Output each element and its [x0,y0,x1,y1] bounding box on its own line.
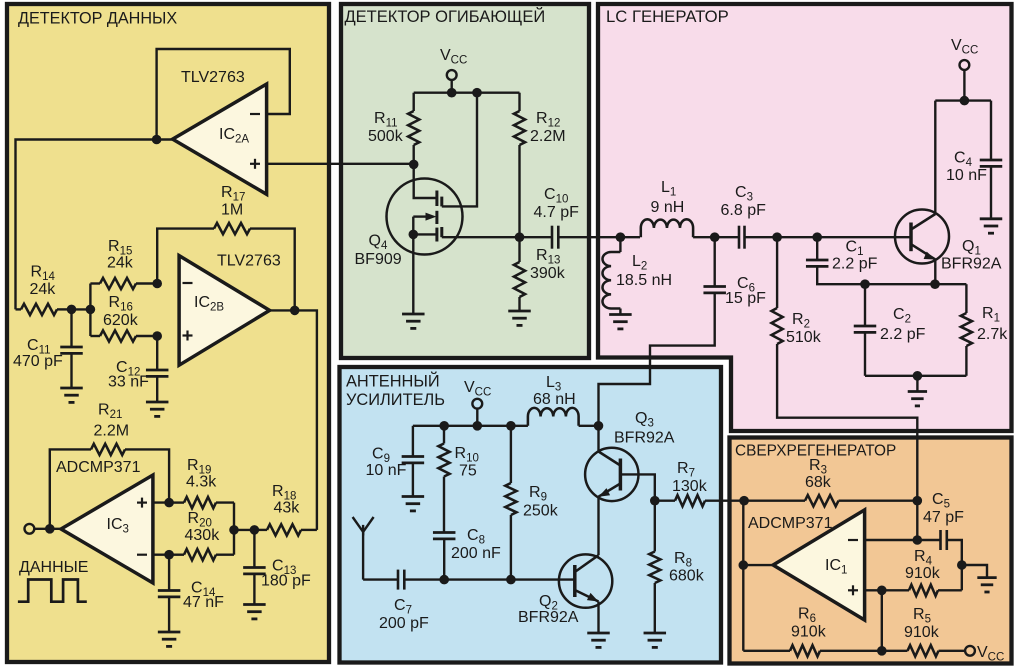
capacitor C4 [980,101,1003,219]
resistor R2 [772,237,783,344]
wire rail to C9 [412,426,414,456]
node R13/C10 junction [515,232,525,242]
data waveform symbol [18,580,87,602]
node IC2B output junction [290,306,300,316]
ground below Q4 [402,314,425,328]
svg-text:500k: 500k [368,128,404,145]
svg-text:BFR92A: BFR92A [614,430,675,447]
svg-text:ADCMP371: ADCMP371 [56,459,141,476]
wire IC3 minus input [153,554,169,556]
inductor L1 [641,219,693,237]
resistor R13 [514,237,525,311]
node L3/Q3 collector junction [594,421,604,431]
svg-text:TLV2763: TLV2763 [217,253,281,270]
node IC3 output/R21 junction [45,524,55,534]
wire gate-1 of Q4 [414,164,436,198]
node R15/R16 left rail junction [86,305,96,315]
svg-text:4.3k: 4.3k [186,474,217,491]
plus sign IC2B [183,331,193,341]
resistor R5 [882,645,965,656]
terminal DATA output [25,524,35,534]
op-amp IC2B (TLV2763) [179,256,270,366]
wire Q4 bulk to source [412,217,414,235]
svg-text:250k: 250k [523,503,559,520]
svg-text:LC ГЕНЕРАТОР: LC ГЕНЕРАТОР [606,7,729,26]
block: envelope detector (green) [341,4,589,358]
emitter rail [865,283,966,285]
minus sign IC2B [183,282,193,284]
ground below C4 [980,219,1003,233]
capacitor C7 [363,570,444,590]
node L1/L2 junction [616,232,626,242]
node IC2B noninverting input [152,331,162,341]
node R9 bottom [506,575,516,585]
node C5/IC1 minus input [913,535,923,545]
wire Q4 source tie [413,233,436,235]
node C13 top junction [250,525,260,535]
node C3/R2 junction [772,232,782,242]
resistor R1 [961,284,972,376]
wire IC3 plus input [153,501,169,503]
wire L2 top lead [619,237,621,252]
resistor R21 [91,444,125,455]
wire R14 node to R15/R16 rail [72,308,91,310]
svg-text:2.2 pF: 2.2 pF [880,326,926,343]
svg-text:24k: 24k [107,255,134,272]
resistor R6 [743,645,882,656]
svg-text:910k: 910k [905,565,941,582]
svg-text:200 pF: 200 pF [379,615,429,632]
resistor R18 [254,524,317,535]
node IC3 minus input [164,550,174,560]
comparator IC1 (ADCMP371) [773,510,865,620]
resistor R14 [16,304,72,315]
Q4 drain electrode [440,197,443,207]
resistor R19 [169,497,234,508]
svg-text:18.5 nH: 18.5 nH [616,272,672,289]
svg-text:TLV2763: TLV2763 [181,69,245,86]
node IC2A output junction [152,135,162,145]
svg-text:BF909: BF909 [355,251,402,268]
node Q1 emitter junction [930,279,940,289]
resistor R9 [505,426,516,580]
svg-text:24k: 24k [30,281,57,298]
svg-text:1M: 1M [221,202,243,219]
ground below C13 [243,605,266,619]
resistor R8 [649,501,660,633]
capacitor C5 [917,530,947,550]
node IC2B inverting input [152,279,162,289]
wire IC2B output to R18 branch [270,310,317,530]
svg-text:ДЕТЕКТОР ДАННЫХ: ДЕТЕКТОР ДАННЫХ [18,10,177,28]
wire IC1 plus to bottom rail [881,590,883,651]
svg-text:6.8 pF: 6.8 pF [721,202,767,219]
ground below L2 [609,315,632,329]
node R19/R20 junction [229,525,239,535]
node R5/R6 junction [877,646,887,656]
capacitor C13 [243,530,266,605]
antenna symbol [353,517,374,580]
node IC1 output junction [739,560,749,570]
svg-text:390k: 390k [530,265,566,282]
Q4 channel bars [435,191,438,242]
capacitor C3 [739,226,910,249]
ground below R8 [644,633,667,647]
wire R4 right up [961,565,963,590]
wire VCC to rail (blue) [476,409,478,426]
wire VCC to rail (green) [451,80,453,93]
wire to ground (pink bottom) [916,376,918,392]
ground below C2/R1 [908,392,927,406]
ground right of C5 [977,578,996,592]
svg-text:68 nH: 68 nH [533,391,576,408]
ground below C14 [158,632,181,646]
Q4 source electrode [440,227,443,237]
node R7/R8 junction [650,496,660,506]
resistor R11 [408,93,419,165]
svg-text:4.7 pF: 4.7 pF [534,204,580,221]
svg-text:9 nH: 9 nH [651,199,685,216]
inductor L3 [528,408,579,426]
svg-text:33 nF: 33 nF [108,374,149,391]
ground below R13 [508,311,531,325]
svg-text:2.2M: 2.2M [94,423,130,440]
svg-text:130k: 130k [672,478,708,495]
transistor Q1 (BFR92A) [895,210,949,264]
node VCC rail (green) 2 [472,88,482,98]
wire R21 left to IC3 output node [50,449,91,528]
capacitor C2 [854,284,877,376]
block: antenna amplifier (blue) [340,367,722,663]
svg-text:68k: 68k [805,474,832,491]
wire C5 right down [948,540,962,565]
block: data detector (yellow) [7,4,329,662]
minus sign IC3 [137,554,147,556]
wire L2 bottom lead [619,309,621,315]
wire IC2A feedback loop (output to inverting input) [157,49,290,140]
transistor Q4 (BF909) circle [387,179,463,255]
plus sign IC3 [137,498,147,508]
ground below C9 [402,497,425,511]
terminal VCC (pink) [960,60,970,70]
wire to small ground (orange) [962,565,987,578]
minus sign IC1 [848,539,858,541]
wire Q4 source to ground [412,234,414,314]
svg-text:75: 75 [459,463,477,480]
comparator IC3 (ADCMP371) [61,475,153,583]
wire Q1 collector to VCC rail [934,101,936,214]
svg-text:620k: 620k [103,312,139,329]
svg-text:ADCMP371: ADCMP371 [748,515,833,532]
node R3 left / IC1 feedback [739,496,749,506]
svg-text:43k: 43k [274,500,301,517]
node IC1 plus input [877,586,887,596]
wire IC3 output [34,528,61,530]
node ground junction (pink) [913,371,923,381]
resistor R10 [438,426,449,533]
node C5/R4/ground junction [957,560,967,570]
wire Q3 collector up [597,426,599,452]
wire IC1 plus input [865,589,882,591]
node Q4 source junction [409,230,419,240]
wire Q2 emitter to ground [597,602,599,634]
svg-text:180 pF: 180 pF [261,573,311,590]
node VCC rail (green) 1 [447,88,457,98]
capacitor C11 [60,309,83,388]
node VCC rail (blue) [473,421,483,431]
inductor L2 [602,252,620,309]
wire Q3 base to R7 node [620,474,654,500]
wire IC1 output rail vertical [742,501,744,651]
svg-text:ДАННЫЕ: ДАННЫЕ [19,559,88,576]
ground below Q2 [587,633,610,647]
wire IC1 minus input [865,539,918,541]
plus sign IC2A [250,159,260,169]
svg-text:47 nF: 47 nF [183,594,224,611]
svg-text:430k: 430k [185,527,221,544]
wire R19/R20 right junction rail [233,503,235,555]
svg-text:910k: 910k [904,624,940,641]
capacitor C8 [433,533,456,580]
svg-text:15 pF: 15 pF [725,290,766,307]
terminal VCC (blue) [472,399,482,409]
wire L3 to Q3 collector node [579,425,599,427]
svg-text:УСИЛИТЕЛЬ: УСИЛИТЕЛЬ [346,391,445,409]
capacitor C1 [806,237,829,266]
wire LC tank rail [620,236,640,238]
capacitor C6 [703,237,726,293]
terminal VCC (green) [447,70,457,80]
node C1 top junction [812,232,822,242]
supply rail (pink) [935,99,991,101]
supply rail (blue) [413,425,528,427]
svg-text:BFR92A: BFR92A [941,256,1002,273]
wire L1 to C3 [693,236,739,238]
node L1/C3/C6 junction [710,232,720,242]
wire R3 right to C5 node [916,501,918,540]
resistor R20 [169,549,234,560]
svg-text:10 nF: 10 nF [946,167,987,184]
wire junction to C13 node [234,529,254,531]
resistor R15 [90,278,157,289]
capacitor C12 [146,336,169,402]
terminal VCC (orange) [965,646,975,656]
plus sign IC1 [848,585,858,595]
svg-text:АНТЕННЫЙ: АНТЕННЫЙ [346,372,440,391]
svg-text:2.2 pF: 2.2 pF [832,256,878,273]
resistor R16 [90,330,157,341]
wire C1 bottom to emitter rail [817,266,865,284]
wire left rail of R15/R16 [89,284,91,337]
wire R21 right to IC3 plus input node [125,449,169,502]
minus sign IC2A [250,113,260,115]
wire VCC to rail (pink) [963,70,965,101]
ground below C11 [60,388,83,402]
wire Q4 source output to R13/C10 node [442,236,520,238]
svg-text:BFR92A: BFR92A [518,609,579,626]
wire IC2A noninverting input to R11 node (into green block) [267,163,414,165]
wire R17 right to IC2B output [250,229,295,311]
resistor R4 [882,585,962,596]
svg-text:47 pF: 47 pF [923,509,964,526]
node R9 top [506,421,516,431]
node R11 bottom / gate-1 input [409,160,419,170]
node R14/C11 junction [67,305,77,315]
capacitor C10 [520,226,621,249]
node R3 right / C5 branch [913,496,923,506]
svg-text:910k: 910k [791,624,827,641]
wire C2/R1 bottom rail [865,375,966,377]
svg-text:200 nF: 200 nF [451,545,501,562]
ground below C12 [146,402,169,416]
wire Q2 collector to Q3 emitter [597,497,599,556]
capacitor C9 [402,457,425,497]
transistor Q2 (BFR92A) [559,554,612,607]
node R10 top [439,421,449,431]
svg-text:510k: 510k [786,329,822,346]
wire Q4 drain to VCC rail [442,93,477,207]
supply rail (green) [414,91,520,93]
op-amp IC2A (TLV2763) [173,84,267,194]
capacitor C14 [158,555,181,632]
block: super-regenerator (orange) [730,438,1012,664]
wire R17 left to IC2B inverting input [157,229,214,284]
svg-text:2.2M: 2.2M [530,128,566,145]
node C2 top junction [860,279,870,289]
transistor Q3 (BFR92A) [585,448,638,501]
node C8 bottom [439,575,449,585]
resistor R7 [655,495,744,506]
resistor R17 [214,223,250,234]
svg-text:2.7k: 2.7k [977,326,1008,343]
svg-text:10 nF: 10 nF [366,462,407,479]
svg-text:680k: 680k [669,568,705,585]
node VCC rail (pink) [960,96,970,106]
Q4 bulk arrow [413,213,436,221]
resistor R3 [744,495,917,506]
wire R2 bottom to super-regen (into orange block) [777,344,917,501]
resistor R12 [514,93,525,238]
wire Q1 emitter down [934,260,936,285]
wire C6 bottom to antenna amp (into blue block) [599,293,715,426]
wire C7 to Q2 base [444,578,575,580]
block: LC generator (pink, L-shape) [598,4,1012,431]
wire IC1 output [743,564,773,566]
node IC3 plus input [164,498,174,508]
svg-text:470 pF: 470 pF [13,353,63,370]
svg-text:ДЕТЕКТОР ОГИБАЮЩЕЙ: ДЕТЕКТОР ОГИБАЮЩЕЙ [345,7,546,26]
wire IC2A output to left rail down to R14 [16,140,173,310]
